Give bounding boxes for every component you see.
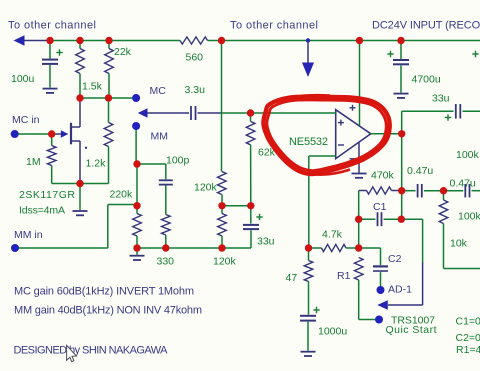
svg-text:C2: C2 <box>388 253 402 265</box>
svg-text:R1: R1 <box>337 270 351 282</box>
svg-text:MC gain 60dB(1kHz) INVERT 1Mo: MC gain 60dB(1kHz) INVERT 1Mohm <box>14 286 194 298</box>
svg-text:22k: 22k <box>114 46 132 58</box>
svg-text:100u: 100u <box>11 73 35 85</box>
svg-text:1.5k: 1.5k <box>82 81 103 93</box>
svg-text:DESIGNED by SHIN NAKAGAWA: DESIGNED by SHIN NAKAGAWA <box>14 345 169 357</box>
svg-text:3.3u: 3.3u <box>185 84 206 96</box>
svg-text:MC: MC <box>150 85 167 97</box>
svg-text:C2=0: C2=0 <box>456 332 480 344</box>
svg-text:10k: 10k <box>450 238 468 250</box>
svg-text:33u: 33u <box>257 236 275 248</box>
svg-text:33u: 33u <box>432 93 450 105</box>
svg-text:1.2k: 1.2k <box>86 158 107 170</box>
svg-text:AD-1: AD-1 <box>388 284 412 296</box>
svg-text:4.7k: 4.7k <box>322 229 343 241</box>
svg-text:MC in: MC in <box>12 114 40 126</box>
svg-text:120k: 120k <box>194 182 218 194</box>
svg-text:MM: MM <box>151 131 169 143</box>
svg-text:R1=4: R1=4 <box>456 344 480 356</box>
svg-text:220k: 220k <box>110 189 134 201</box>
svg-text:C1=0: C1=0 <box>456 316 480 328</box>
svg-text:0.47u: 0.47u <box>450 178 476 190</box>
svg-text:MM gain 40dB(1kHz) NON INV 47: MM gain 40dB(1kHz) NON INV 47kohm <box>14 305 202 317</box>
svg-text:100p: 100p <box>166 155 190 167</box>
svg-text:C1: C1 <box>373 201 387 213</box>
svg-text:To other channel: To other channel <box>8 20 96 32</box>
svg-text:NE5532: NE5532 <box>289 136 328 148</box>
svg-text:1000u: 1000u <box>318 326 347 338</box>
svg-text:2SK117GR: 2SK117GR <box>19 189 75 201</box>
svg-text:MM in: MM in <box>14 229 43 241</box>
svg-text:DC24V INPUT (RECOR: DC24V INPUT (RECOR <box>372 20 480 32</box>
svg-text:330: 330 <box>157 256 175 268</box>
svg-text:560: 560 <box>186 52 204 64</box>
svg-text:47: 47 <box>286 272 298 284</box>
svg-text:Idss=4mA: Idss=4mA <box>19 205 65 217</box>
svg-text:To other channel: To other channel <box>230 20 318 32</box>
svg-text:100k: 100k <box>456 149 480 161</box>
svg-text:1M: 1M <box>26 156 41 168</box>
svg-text:Quic Start: Quic Start <box>386 324 437 336</box>
svg-text:4700u: 4700u <box>412 74 441 86</box>
svg-text:120k: 120k <box>213 256 237 268</box>
svg-text:470k: 470k <box>371 170 395 182</box>
svg-text:0.47u: 0.47u <box>407 165 433 177</box>
svg-text:100k: 100k <box>458 211 480 223</box>
